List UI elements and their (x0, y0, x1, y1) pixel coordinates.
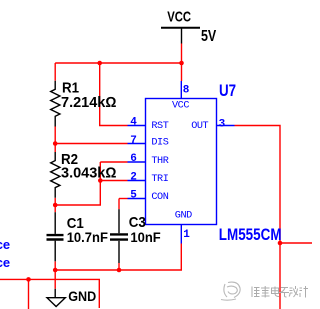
svg-text:C3: C3 (129, 213, 146, 230)
svg-text:3: 3 (219, 118, 226, 130)
svg-text:ce: ce (0, 255, 10, 270)
svg-text:U7: U7 (219, 83, 236, 100)
svg-text:RST: RST (151, 121, 168, 132)
svg-text:LM555CM: LM555CM (219, 226, 282, 245)
svg-text:3.043kΩ: 3.043kΩ (61, 166, 117, 182)
svg-text:VCC: VCC (167, 8, 191, 25)
svg-text:5: 5 (130, 190, 137, 202)
svg-text:R1: R1 (62, 79, 79, 96)
svg-text:THR: THR (151, 156, 168, 167)
svg-text:8: 8 (183, 85, 190, 97)
svg-text:VCC: VCC (172, 101, 189, 112)
svg-text:4: 4 (130, 117, 137, 129)
svg-text:2: 2 (130, 172, 137, 184)
svg-text:CON: CON (151, 192, 168, 203)
svg-text:6: 6 (130, 153, 137, 165)
svg-text:1: 1 (183, 229, 190, 241)
svg-text:10.7nF: 10.7nF (67, 229, 108, 245)
svg-text:OUT: OUT (191, 121, 208, 132)
svg-text:5V: 5V (201, 27, 217, 45)
svg-text:TRI: TRI (151, 174, 168, 185)
svg-text:10nF: 10nF (130, 229, 160, 245)
svg-text:GND: GND (175, 210, 192, 221)
svg-text:7.214kΩ: 7.214kΩ (61, 95, 117, 111)
svg-text:7: 7 (130, 135, 137, 147)
svg-text:ce: ce (0, 237, 10, 252)
svg-text:GND: GND (68, 288, 96, 304)
svg-text:DIS: DIS (151, 138, 168, 149)
